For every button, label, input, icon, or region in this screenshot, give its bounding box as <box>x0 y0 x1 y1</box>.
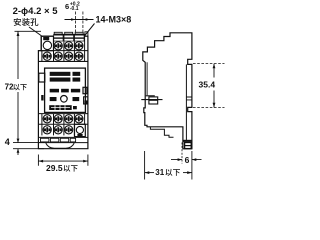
black mark under bottom-right hole <box>77 134 82 137</box>
hook bottom right box with rung <box>185 143 192 149</box>
svg-text:4: 4 <box>5 137 10 147</box>
window bar 1 <box>50 72 71 76</box>
dimension 6 (side) : dim line with outside arrows <box>171 159 202 161</box>
dimension 72 or less : arrow up <box>17 31 20 36</box>
dimension 6 (side) : extension lines <box>181 143 183 164</box>
top clip slot band (black) <box>53 34 84 42</box>
mounting hole box bottom-right <box>75 124 86 136</box>
hook bottom right thick bar <box>183 140 192 142</box>
dimension 31 or less : dim line <box>145 172 154 174</box>
right lever structure <box>84 97 88 104</box>
screw terminal row3 col3 <box>65 115 73 123</box>
label anzhuangkong (CJK as paths) <box>14 18 39 26</box>
left black bar lower <box>41 95 43 101</box>
top protrusions above body <box>54 32 62 34</box>
dimension 4 : extension lines <box>13 142 44 144</box>
tick on base right edge <box>186 97 192 100</box>
screw terminal row2 col4 <box>75 52 83 60</box>
screw terminal row1 col2 <box>54 42 62 50</box>
window label strip <box>49 105 71 110</box>
screw terminal row4 col3 <box>65 126 73 134</box>
window center circle <box>61 96 68 103</box>
mounting hole top-left (plain circle) <box>43 41 51 49</box>
left tab on window <box>39 73 45 82</box>
thumb recess curve at bottom <box>46 143 74 148</box>
svg-text:31: 31 <box>155 168 164 177</box>
dimension 31 or less : extension lines <box>144 151 146 180</box>
clip slot white openings column 4 <box>75 36 84 38</box>
screw terminal row1 col3 <box>65 42 73 50</box>
svg-text:35.4: 35.4 <box>199 80 216 90</box>
clip screw structure <box>146 95 155 97</box>
top right wall protrusion <box>85 32 88 36</box>
clip slot white openings column 2 <box>54 36 63 38</box>
right tab on window <box>83 87 87 93</box>
relay window outline <box>45 68 86 112</box>
bottom divider band lines <box>38 136 88 138</box>
screw terminal row2 col3 <box>65 52 73 60</box>
black mark in ear <box>43 37 49 40</box>
screw terminal row2 col2 <box>54 52 62 60</box>
svg-text:2-ϕ4.2 × 5: 2-ϕ4.2 × 5 <box>13 6 59 17</box>
screw terminal row1 col4 <box>75 42 83 50</box>
front view body outline <box>38 36 88 149</box>
dimension 35.4 : extension dashed lines <box>193 63 225 65</box>
dimension 72 or less : top extension line <box>15 30 42 32</box>
screw terminal row3 col4 <box>75 115 83 123</box>
inner base line <box>185 64 187 140</box>
dimension 29.5 or less : dim line with arrows <box>38 160 88 162</box>
dimension 72 or less : vertical line lower part <box>17 92 19 137</box>
label yixia after 72 (CJK as paths) <box>13 84 26 90</box>
screw terminal row3 col2 <box>54 115 62 123</box>
bottom divider rects <box>41 138 49 142</box>
leader line from mounting-hole note to ear <box>29 27 43 37</box>
svg-text:14-M3×8: 14-M3×8 <box>96 14 132 24</box>
internal step lines lower left <box>150 127 173 138</box>
clip slot white openings column 3 <box>64 36 73 38</box>
dimension 29.5 or less : extension lines <box>38 155 88 166</box>
terminal grid rows 3-4 <box>38 113 88 115</box>
dim line for 6 tolerance <box>65 19 94 21</box>
dimension 72 or less : vertical line upper part <box>17 31 19 79</box>
terminal grid rows 1-2 <box>38 50 88 52</box>
window small bar right <box>73 97 80 101</box>
dimension 35.4 : vertical dim line <box>213 64 215 108</box>
label yixia after 31 (CJK as paths) <box>165 169 180 176</box>
window bar 2 <box>50 78 71 82</box>
screw terminal row3 col1 <box>43 115 51 123</box>
label yixia after 29.5 (CJK as paths) <box>64 165 78 172</box>
svg-text:72: 72 <box>5 83 14 92</box>
side view outline profile <box>143 33 192 149</box>
leader line 14-M3x8 to top-right terminal <box>82 24 95 40</box>
screw terminal row4 col2 <box>54 126 62 134</box>
svg-text:-0.1: -0.1 <box>70 6 79 12</box>
mounting ear box top-left <box>41 36 53 51</box>
window small bar left <box>50 97 57 101</box>
svg-text:6: 6 <box>185 155 190 165</box>
window bar 3 <box>50 89 59 93</box>
screw terminal row4 col1 <box>43 126 51 134</box>
svg-text:29.5: 29.5 <box>46 163 63 173</box>
mounting hole bottom-right (plain circle) <box>76 126 83 133</box>
inner wall line <box>146 62 148 95</box>
screw terminal row2 col1 <box>43 52 51 60</box>
window small black square right of label <box>73 106 77 109</box>
svg-text:6: 6 <box>65 2 69 11</box>
extension dashed lines for 6 tolerance <box>75 12 77 34</box>
dimension 4 : arrows outside <box>17 137 19 156</box>
